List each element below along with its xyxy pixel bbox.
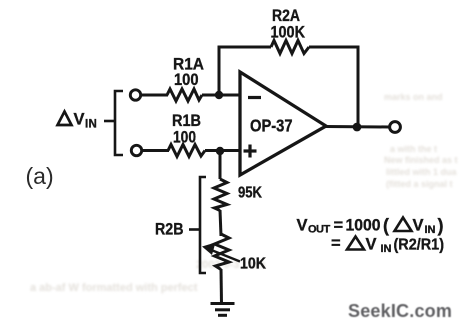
op-amp minus symbol bbox=[248, 96, 261, 99]
terminal circle bottom input bbox=[131, 145, 141, 155]
wire: feedback drop to output node bbox=[357, 46, 360, 127]
svg-text:=: = bbox=[331, 235, 341, 253]
svg-text:(a): (a) bbox=[26, 163, 54, 189]
svg-text:New finished as t: New finished as t bbox=[384, 155, 458, 165]
svg-text:IN: IN bbox=[85, 119, 97, 131]
ground bbox=[211, 304, 235, 316]
op-amp plus symbol bbox=[244, 145, 257, 158]
svg-text:IN: IN bbox=[381, 243, 392, 255]
svg-text:1000: 1000 bbox=[346, 217, 381, 235]
wire: feedback riser left bbox=[218, 46, 221, 95]
svg-text:100K: 100K bbox=[271, 24, 306, 42]
op-amp U1 triangle bbox=[240, 72, 326, 175]
resistor R1A bbox=[167, 89, 202, 101]
node: non-inverting input junction bbox=[216, 147, 224, 155]
wire: feedback top right segment bbox=[309, 46, 359, 49]
wire: op-amp output to terminal bbox=[326, 125, 389, 129]
watermark SeekIC.com bbox=[348, 301, 452, 321]
svg-text:(fitted a signal t: (fitted a signal t bbox=[386, 179, 453, 189]
wire: R1B to op-amp non-inverting input bbox=[205, 149, 241, 152]
svg-text:marks on and: marks on and bbox=[384, 92, 443, 102]
svg-text:V: V bbox=[297, 217, 308, 235]
svg-text:100: 100 bbox=[173, 129, 196, 147]
wire: potentiometer to ground bbox=[220, 269, 224, 304]
svg-text:R2A: R2A bbox=[272, 7, 300, 25]
svg-text:V: V bbox=[366, 236, 377, 254]
svg-text:R2B: R2B bbox=[155, 221, 184, 239]
svg-text:SeekIC.com: SeekIC.com bbox=[348, 301, 452, 321]
svg-text:(R2/R1): (R2/R1) bbox=[394, 237, 445, 254]
svg-text:10K: 10K bbox=[240, 256, 266, 273]
svg-text:a ab-af W formatted with perfe: a ab-af W formatted with perfect bbox=[30, 282, 198, 294]
svg-text:95K: 95K bbox=[238, 185, 262, 202]
svg-text:100: 100 bbox=[174, 71, 199, 89]
svg-text:R1B: R1B bbox=[172, 112, 201, 130]
svg-text:=: = bbox=[334, 217, 344, 235]
ghost scan artifact right column bbox=[384, 92, 458, 189]
formula line 2: = delta Vin (R2/R1) bbox=[331, 235, 444, 256]
terminal circle top input bbox=[130, 90, 140, 100]
wire: feedback top left segment bbox=[218, 46, 271, 49]
wire: R1A to op-amp inverting input bbox=[202, 94, 241, 97]
potentiometer 10K body bbox=[215, 234, 230, 270]
resistor 95K (vertical) bbox=[214, 179, 227, 211]
resistor R1B bbox=[168, 145, 205, 157]
potentiometer wiper arrow bbox=[202, 243, 240, 262]
svg-text:IN: IN bbox=[425, 224, 436, 236]
node: output junction bbox=[353, 123, 362, 132]
svg-text:OP-37: OP-37 bbox=[250, 116, 293, 136]
svg-text:): ) bbox=[438, 216, 444, 236]
wire: top input from terminal to R1A bbox=[141, 94, 168, 97]
svg-text:(: ( bbox=[383, 216, 389, 236]
input bracket for delta Vin bbox=[104, 91, 123, 155]
wire: bottom input from terminal to R1B bbox=[142, 149, 169, 152]
label delta V IN bbox=[58, 111, 98, 131]
svg-text:V: V bbox=[413, 217, 424, 235]
svg-text:OUT: OUT bbox=[308, 224, 331, 236]
wire: drop from non-inverting node to 95K bbox=[219, 151, 222, 179]
bracket R2B bbox=[189, 177, 206, 273]
node: inverting input junction bbox=[215, 91, 223, 99]
svg-text:a with the t: a with the t bbox=[390, 144, 437, 154]
wire: 95K to potentiometer bbox=[220, 210, 221, 236]
resistor R2A bbox=[271, 41, 309, 54]
svg-text:littled with 1 dua: littled with 1 dua bbox=[386, 167, 457, 177]
formula line 1: Vout = 1000 (delta Vin) bbox=[297, 216, 444, 237]
terminal circle output bbox=[390, 122, 401, 133]
svg-text:V: V bbox=[74, 111, 85, 129]
ghost scan artifact bottom lines bbox=[30, 259, 266, 294]
